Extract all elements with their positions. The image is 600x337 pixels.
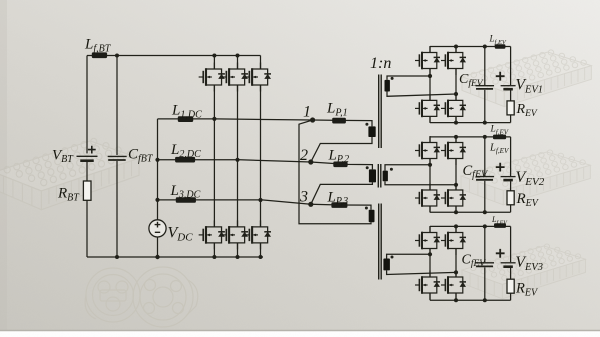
wire stage 2 REV to bottom rail: [510, 205, 512, 212]
junction stage 1 bottom rail / right leg: [454, 121, 458, 125]
junction phase 2 / leg B: [235, 158, 239, 162]
wire T3 secondary bottom to bridge3 right midpoint: [387, 270, 456, 274]
inductor L1,DC: [178, 116, 193, 122]
wire primary 2 return to node 3: [311, 182, 373, 204]
polarity dot T2 primary: [366, 166, 369, 169]
wire CfBT branch lower: [116, 161, 118, 257]
transistor Q17 stage 3 bridge bottom-left (MOSFET with body diode): [415, 271, 440, 300]
battery source VEV3: [501, 263, 516, 267]
wire stage 3 bridge left leg: [429, 226, 431, 300]
junction stage 1 bottom rail / CfEV: [483, 121, 487, 125]
wire stage 3 battery branch upper: [510, 226, 512, 262]
wire stage 1 CfEV branch upper: [484, 47, 486, 86]
inductor Lf,EV stage 2: [493, 135, 506, 140]
transistor Q16 stage 3 bridge top-right (MOSFET with body diode): [441, 226, 466, 255]
wire top DC rail: [87, 55, 261, 57]
battery source VEV2: [501, 177, 516, 181]
junction stage 1 left midpoint: [428, 74, 432, 78]
wire node1 through LP1 to primary 1: [313, 120, 372, 126]
inductor Lf,BT: [92, 52, 107, 58]
transistor Q13 stage 2 bridge bottom-left (MOSFET with body diode): [415, 184, 440, 213]
transistor Q6 bottom of leg C (MOSFET with body diode): [245, 220, 271, 249]
watermark battery pack left: [0, 138, 139, 209]
polarity dot T1 primary: [365, 123, 368, 126]
node 1: [310, 117, 315, 122]
transistor Q9 stage 1 bridge bottom-left (MOSFET with body diode): [415, 94, 440, 123]
transistor Q11 stage 2 bridge top-left (MOSFET with body diode): [415, 136, 440, 165]
junction stage 3 top rail / CfEV: [483, 224, 487, 228]
transistor Q18 stage 3 bridge bottom-right (MOSFET with body diode): [441, 271, 466, 300]
wire bottom DC rail: [87, 256, 263, 258]
junction bottom rail / leg A: [212, 255, 216, 259]
wire stage 1 battery branch upper: [510, 47, 512, 86]
transistor Q5 bottom of leg B (MOSFET with body diode): [222, 220, 248, 249]
junction stage 1 right midpoint: [454, 92, 458, 96]
wire T1 secondary top to bridge1 left midpoint: [387, 76, 430, 80]
junction stage 2 top rail / right leg: [454, 135, 458, 139]
wire stage 2 bottom rail: [430, 211, 511, 213]
svg-text:1: 1: [303, 104, 311, 121]
polarity dot T3 primary: [365, 207, 368, 210]
wire stage 1 bottom rail: [430, 122, 511, 124]
transformer winding T3 primary: [369, 210, 375, 222]
inductor LP,2: [333, 162, 347, 168]
junction stage 2 top rail / CfEV: [483, 135, 487, 139]
transistor Q10 stage 1 bridge bottom-right (MOSFET with body diode): [441, 94, 466, 123]
wire stage 2 bridge left leg: [429, 137, 431, 212]
wire half-bridge leg B: [237, 56, 239, 258]
wire RBT to bottom rail: [86, 200, 88, 257]
transformer winding T1 secondary: [385, 80, 390, 92]
junction stage 2 left midpoint: [428, 163, 432, 167]
plus sign of VEV2: [496, 163, 505, 172]
plus sign of VBT: [88, 146, 96, 154]
capacitor CfBT: [108, 156, 127, 160]
resistor REV stage 1: [507, 101, 514, 115]
wire half-bridge leg A: [213, 56, 215, 258]
junction top rail / leg B: [236, 54, 240, 58]
wire stage 1 REV to bottom rail: [510, 115, 512, 123]
junction stage 3 bottom rail / CfEV: [483, 298, 487, 302]
transistor Q2 top of leg B (MOSFET with body diode): [222, 63, 248, 92]
junction top rail / leg A: [212, 54, 216, 58]
node 3: [308, 202, 313, 207]
junction stage 3 left midpoint: [428, 252, 432, 256]
wire stage 2 bridge right leg: [455, 137, 457, 212]
polarity dot T2 secondary: [390, 168, 393, 171]
wire stage 3 battery to REV: [510, 268, 512, 279]
transformer winding T2 secondary: [383, 171, 388, 182]
wire stage 2 battery to REV: [510, 181, 512, 191]
battery source VEV1: [501, 86, 516, 90]
transistor Q1 top of leg A (MOSFET with body diode): [199, 63, 225, 92]
battery source VBT: [77, 156, 98, 160]
wire stage 3 CfEV branch lower: [484, 267, 486, 300]
transistor Q3 top of leg C (MOSFET with body diode): [245, 63, 271, 92]
wire battery to RBT: [86, 162, 88, 181]
watermark battery pack bottom right: [462, 244, 585, 299]
wire T2 secondary bottom to bridge2 right midpoint: [385, 181, 456, 185]
wire node3 through LP3 to primary 3: [311, 204, 371, 210]
wire phase 2 line: [158, 160, 311, 162]
capacitor CfEV stage 2: [476, 177, 495, 180]
junction stage 1 top rail / CfEV: [483, 45, 487, 49]
paper grain: [0, 0, 1, 1]
junction stage 2 bottom rail / right leg: [454, 210, 458, 214]
resistor REV stage 3: [507, 279, 514, 293]
transformer winding T2 primary: [369, 169, 376, 182]
wire stage 3 bottom rail: [430, 299, 511, 301]
wire T1 secondary bottom to bridge1 right midpoint: [387, 92, 456, 97]
wire battery branch upper: [86, 56, 88, 154]
polarity dot T1 secondary: [391, 77, 394, 80]
wire stage 2 top rail: [430, 136, 511, 138]
wire stage 1 bridge left leg: [429, 47, 431, 123]
transistor Q14 stage 2 bridge bottom-right (MOSFET with body diode): [441, 184, 466, 213]
resistor RBT: [83, 181, 91, 200]
transformer T3 core: [379, 204, 382, 280]
wire stage 2 battery branch upper: [510, 137, 512, 176]
wire stage 2 CfEV branch upper: [484, 137, 486, 176]
junction stage 3 right midpoint: [454, 270, 458, 274]
transistor Q15 stage 3 bridge top-left (MOSFET with body diode): [415, 226, 440, 255]
transformer winding T1 primary: [368, 126, 375, 137]
junction phase 1 / leg A: [212, 117, 216, 121]
inductor L3,DC: [176, 197, 196, 203]
wire stage 1 top rail: [430, 46, 511, 48]
junction phase 2 / common vertical: [155, 158, 159, 162]
watermark electric motor sketch bottom left: [85, 267, 198, 327]
transformer T1 core: [379, 75, 382, 149]
junction bottom rail / VDC: [155, 255, 159, 259]
junction stage 3 bottom rail / right leg: [454, 298, 458, 302]
junction phase 3 / leg C: [258, 198, 262, 202]
wire stage 3 REV to bottom rail: [510, 293, 512, 300]
wire primary 3 return to node 1: [299, 120, 371, 224]
wire T3 secondary top to bridge3 left midpoint: [387, 254, 430, 258]
junction stage 2 right midpoint: [454, 183, 458, 187]
transistor Q8 stage 1 bridge top-right (MOSFET with body diode): [441, 46, 466, 75]
node 2: [308, 159, 313, 164]
wire stage 3 CfEV branch upper: [484, 226, 486, 262]
junction bottom rail / leg B: [236, 255, 240, 259]
capacitor CfEV stage 3: [476, 263, 495, 267]
wire half-bridge leg C: [260, 56, 262, 258]
transistor Q12 stage 2 bridge top-right (MOSFET with body diode): [441, 136, 466, 165]
svg-text:2: 2: [300, 147, 308, 164]
junction phase 3 / common vertical: [155, 198, 159, 202]
watermark battery pack top right: [462, 50, 591, 107]
transistor Q7 stage 1 bridge top-left (MOSFET with body diode): [415, 46, 440, 75]
plus sign of VEV3: [496, 249, 505, 258]
transformer winding T3 secondary: [383, 259, 390, 271]
junction stage 2 bottom rail / CfEV: [483, 210, 487, 214]
junction stage 1 top rail / right leg: [454, 45, 458, 49]
capacitor CfEV stage 1: [476, 86, 495, 89]
junction node top of CfBT: [115, 54, 119, 58]
polarity dot T3 secondary: [391, 256, 394, 259]
inductor LP,3: [331, 202, 347, 208]
transformer T2 core: [378, 164, 381, 188]
wire stage 1 battery to REV: [510, 90, 512, 101]
source VDC (DC voltage source): [149, 220, 166, 237]
wire T2 secondary top to bridge2 left midpoint: [385, 165, 430, 171]
watermark battery pack middle right: [461, 150, 590, 205]
wire CfBT branch upper: [116, 56, 118, 156]
wire stage 1 CfEV branch lower: [484, 90, 486, 123]
wire stage 3 bridge right leg: [455, 226, 457, 300]
junction bottom rail / leg C: [259, 255, 263, 259]
wire phase 3 line: [158, 200, 311, 204]
junction stage 3 top rail / right leg: [454, 224, 458, 228]
svg-text:1:n: 1:n: [370, 55, 391, 72]
resistor REV stage 2: [507, 191, 514, 205]
wire stage 3 top rail: [430, 225, 511, 227]
wire node2 through LP2 to primary 2: [311, 162, 373, 169]
inductor Lf,EV stage 3: [494, 223, 506, 228]
svg-text:3: 3: [299, 189, 308, 206]
wire VDC to bottom rail: [157, 237, 159, 257]
wire stage 2 CfEV branch lower: [484, 181, 486, 212]
wire DC-link common vertical: [157, 119, 159, 220]
inductor L2,DC: [175, 157, 195, 163]
junction bottom rail / CfBT: [115, 255, 119, 259]
transistor Q4 bottom of leg A (MOSFET with body diode): [199, 220, 225, 249]
wire primary 1 return to node 2: [311, 137, 372, 162]
plus sign of VEV1: [496, 72, 505, 81]
wire stage 1 bridge right leg: [455, 47, 457, 123]
inductor LP,1: [332, 118, 346, 124]
wire phase 1 line: [158, 119, 313, 120]
inductor Lf,EV stage 1: [495, 44, 506, 49]
